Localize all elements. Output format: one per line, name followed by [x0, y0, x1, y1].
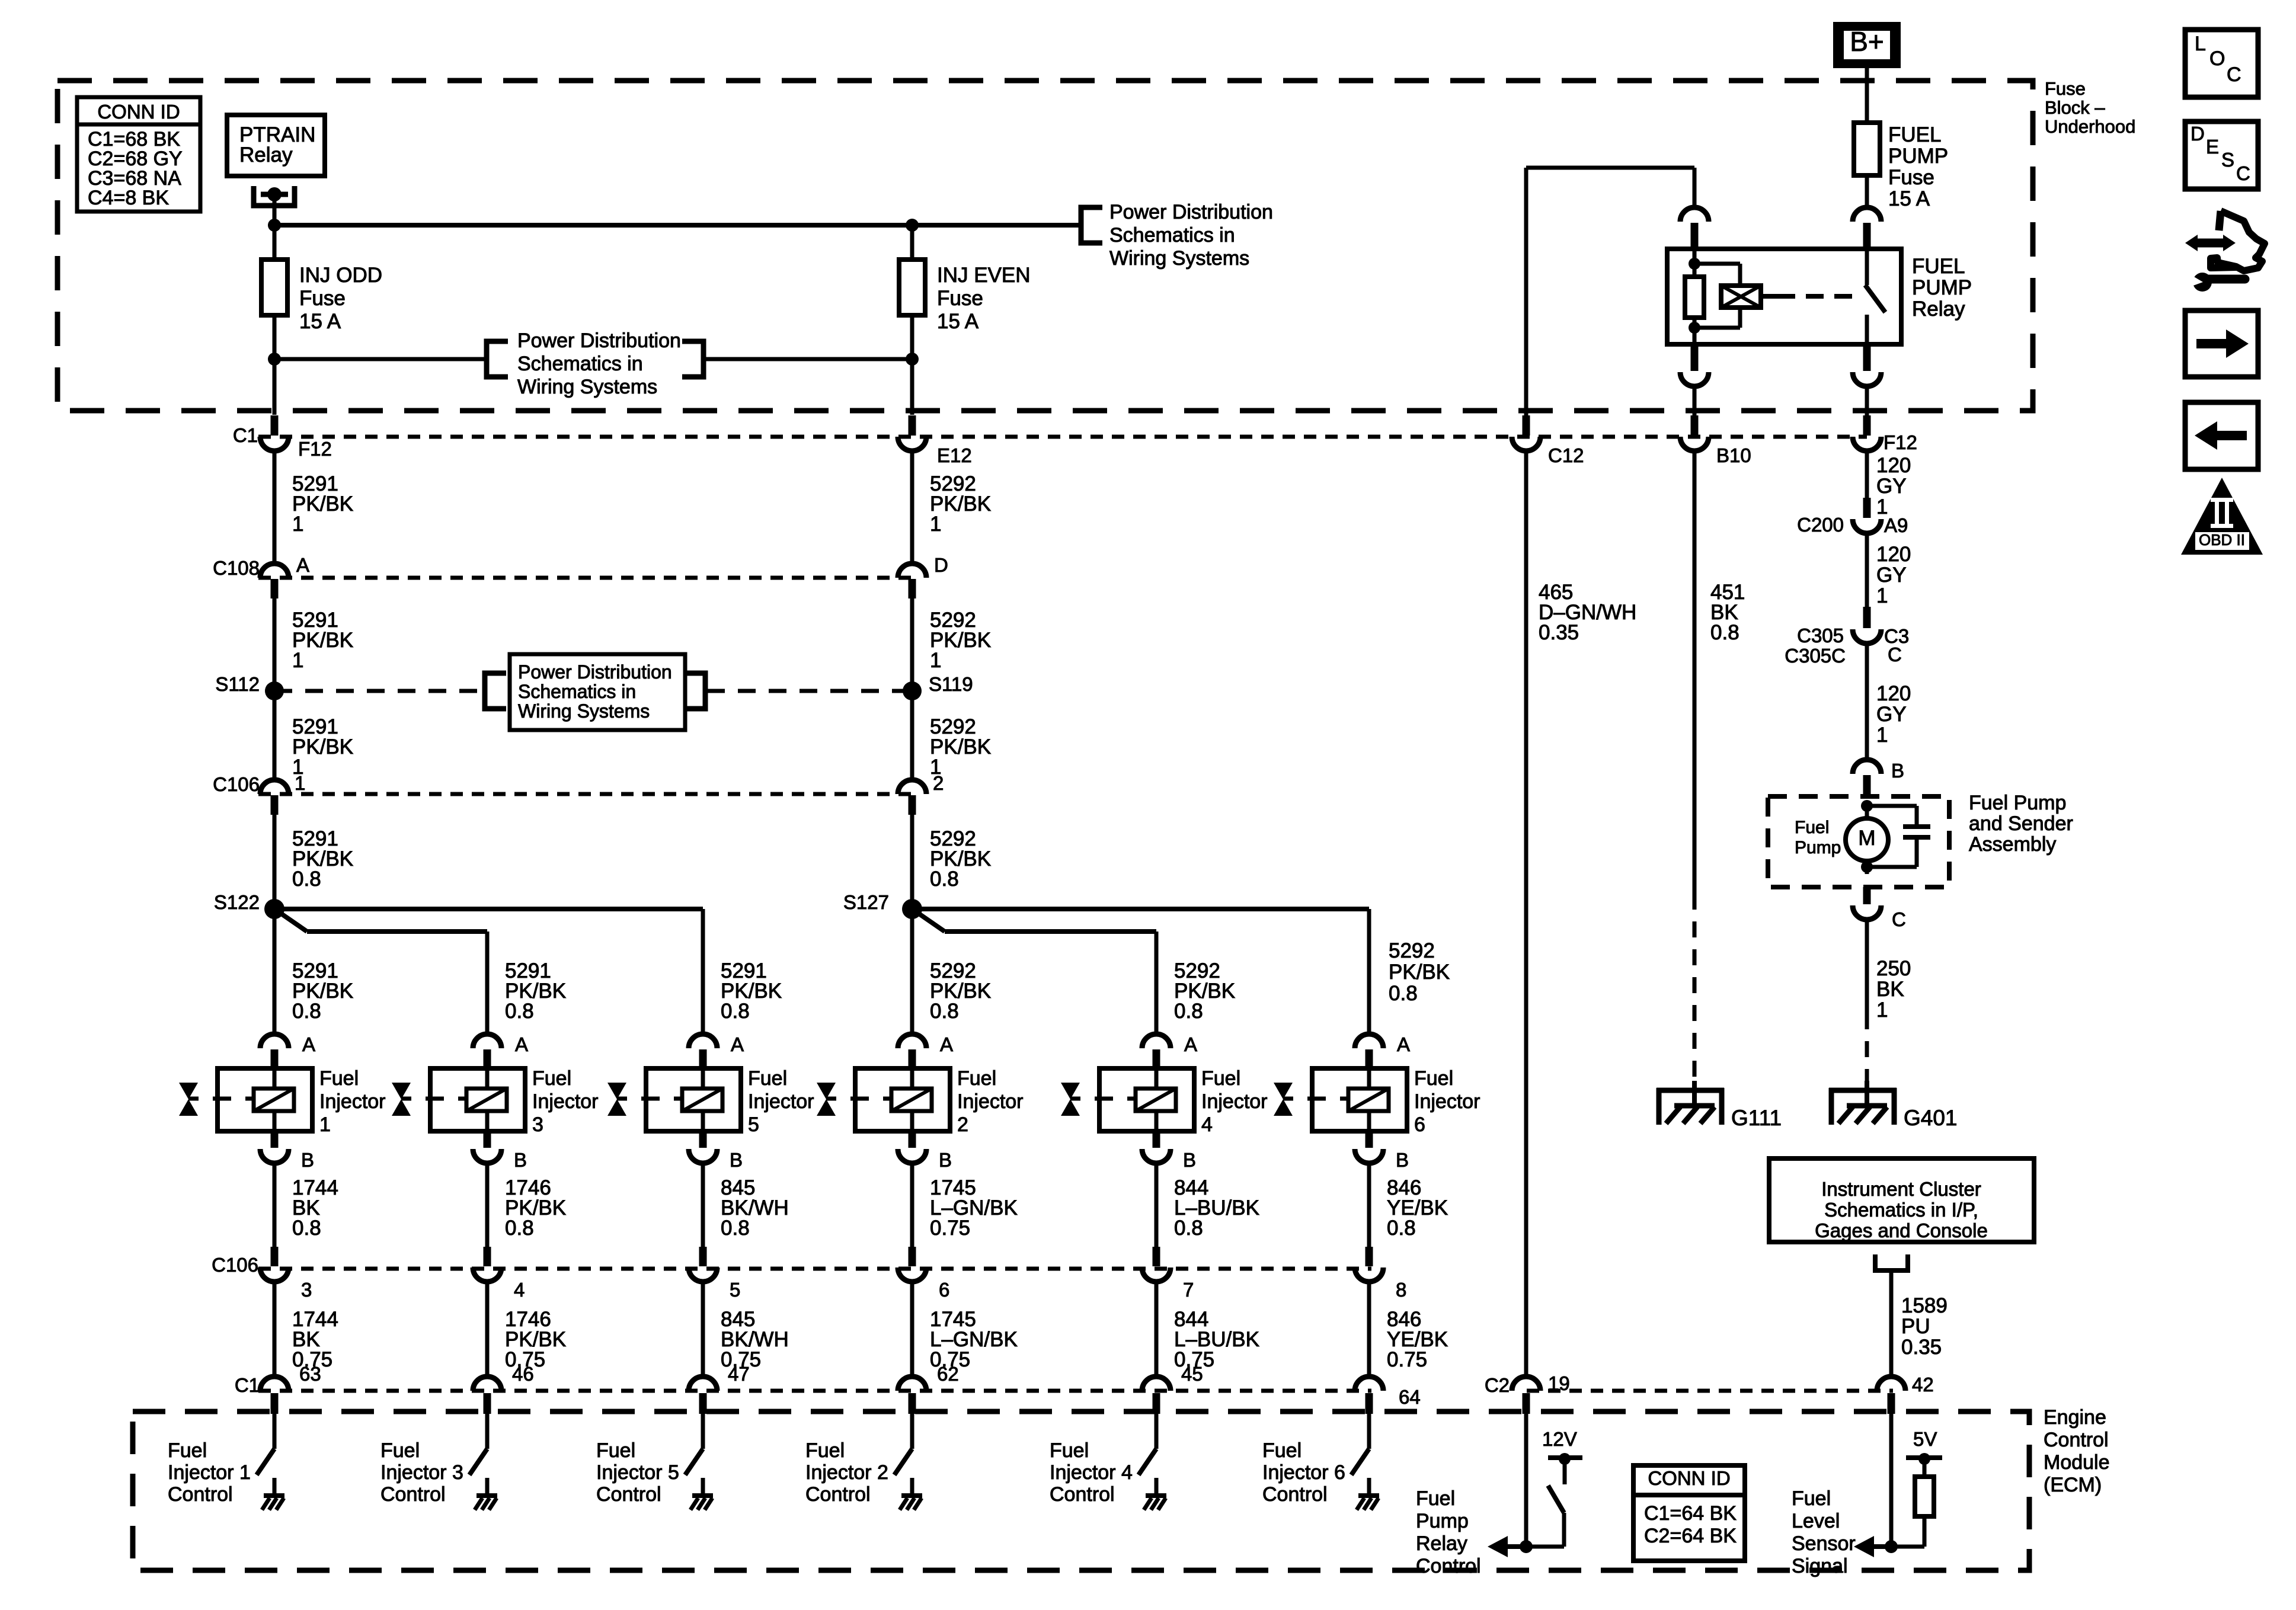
- svg-text:Fuse: Fuse: [937, 287, 983, 310]
- CONN ID table (fuse block): [77, 97, 200, 212]
- svg-text:3: 3: [301, 1279, 312, 1301]
- svg-text:63: 63: [299, 1363, 321, 1385]
- ground ECM injector 5: [692, 1493, 713, 1498]
- relay switch pin connector: [1853, 207, 1881, 222]
- svg-text:FUEL: FUEL: [1912, 255, 1965, 278]
- wire S122 to injector3 column: [274, 909, 307, 932]
- connector pump pin B: [1853, 760, 1881, 774]
- node junction PTRAIN feed: [268, 219, 281, 232]
- connector C305: [1863, 607, 1871, 628]
- fuel pump capacitor: [1867, 804, 1917, 808]
- svg-text:Fuel: Fuel: [1050, 1439, 1089, 1462]
- svg-text:C: C: [2227, 63, 2241, 86]
- svg-text:Injector 4: Injector 4: [1050, 1461, 1133, 1484]
- svg-text:A: A: [731, 1033, 744, 1055]
- splice S119: [903, 681, 922, 700]
- connector C200: [1863, 498, 1871, 518]
- svg-text:D: D: [2191, 123, 2205, 145]
- svg-text:0.8: 0.8: [505, 1000, 534, 1023]
- ECM dashed box: [133, 1411, 2029, 1570]
- icon LOC: [2185, 30, 2258, 97]
- svg-text:Module: Module: [2044, 1451, 2110, 1474]
- connector row C108: [258, 576, 913, 580]
- fuel injector 6 body: [1312, 1068, 1407, 1131]
- svg-text:Underhood: Underhood: [2045, 116, 2135, 137]
- svg-text:0.8: 0.8: [292, 868, 321, 891]
- svg-text:C1=64 BK: C1=64 BK: [1644, 1502, 1737, 1525]
- wire F12 down to C200: [1865, 451, 1869, 498]
- svg-text:0.35: 0.35: [1901, 1336, 1942, 1359]
- svg-text:Injector: Injector: [748, 1090, 814, 1113]
- svg-text:S119: S119: [929, 673, 973, 695]
- arrow fuel pump relay control: [1506, 1544, 1526, 1549]
- wire B+ down: [1865, 68, 1869, 124]
- wire C106 to S122: [273, 815, 277, 909]
- fuel injector 4 pin A connector: [1142, 1034, 1171, 1048]
- fuel injector 3 pin B connector: [484, 1131, 491, 1148]
- wire injector 3 B to C106: [485, 1163, 490, 1247]
- svg-text:Injector: Injector: [319, 1090, 386, 1113]
- PTRAIN Relay box: [227, 115, 325, 176]
- svg-text:3: 3: [532, 1113, 543, 1136]
- fuel injector 3 body: [430, 1068, 525, 1131]
- svg-text:E12: E12: [937, 444, 972, 466]
- relay control dashed link: [1761, 294, 1777, 299]
- wire B10 dashed to ground: [1693, 894, 1697, 1088]
- svg-text:Relay: Relay: [1416, 1532, 1467, 1555]
- icon diagnostic wrench: [2211, 211, 2265, 271]
- svg-text:Control: Control: [1050, 1483, 1115, 1506]
- fuel injector 3 pin A connector: [473, 1034, 501, 1048]
- svg-text:0.8: 0.8: [1174, 1217, 1203, 1240]
- ECM 5V pull-up: [1906, 1455, 1942, 1460]
- svg-text:120: 120: [1876, 454, 1911, 477]
- svg-text:C: C: [1892, 908, 1906, 930]
- wire pump to ground solid: [1865, 920, 1869, 1013]
- splice S112: [265, 681, 284, 700]
- ECM fuel level sensor input: [1889, 1414, 1894, 1547]
- svg-text:B: B: [730, 1149, 743, 1171]
- fuel injector 1 body: [218, 1068, 312, 1131]
- svg-text:PUMP: PUMP: [1912, 276, 1972, 299]
- svg-text:Relay: Relay: [1912, 297, 1965, 321]
- fuse INJ EVEN: [910, 225, 914, 260]
- svg-text:4: 4: [1201, 1113, 1213, 1136]
- svg-text:Injector: Injector: [1201, 1090, 1268, 1113]
- ground ECM injector 4: [1146, 1493, 1166, 1498]
- svg-text:Level: Level: [1792, 1510, 1840, 1532]
- fuel injector 2 body: [855, 1068, 950, 1131]
- svg-text:Schematics in: Schematics in: [518, 681, 636, 702]
- svg-text:Injector 2: Injector 2: [805, 1461, 888, 1484]
- svg-text:0.35: 0.35: [1539, 621, 1579, 644]
- fuse FUEL PUMP: [1854, 123, 1880, 175]
- svg-text:S: S: [2221, 149, 2234, 171]
- svg-text:A: A: [940, 1033, 953, 1055]
- svg-text:7: 7: [1183, 1279, 1194, 1301]
- svg-text:6: 6: [1414, 1113, 1425, 1136]
- ECM driver switch injector 5: [701, 1414, 705, 1449]
- svg-text:0.8: 0.8: [1387, 1217, 1416, 1240]
- relay switch blade: [1865, 249, 1869, 285]
- dashed link S112 to box: [274, 689, 483, 693]
- svg-text:B+: B+: [1850, 26, 1884, 57]
- svg-text:G401: G401: [1904, 1106, 1958, 1130]
- svg-text:INJ EVEN: INJ EVEN: [937, 264, 1031, 287]
- svg-text:B: B: [939, 1149, 952, 1171]
- svg-text:B: B: [1183, 1149, 1196, 1171]
- svg-text:A: A: [302, 1033, 315, 1055]
- svg-text:Fuel: Fuel: [319, 1067, 359, 1090]
- svg-text:2: 2: [957, 1113, 968, 1136]
- svg-text:GY: GY: [1876, 564, 1907, 587]
- svg-text:Control: Control: [1262, 1483, 1328, 1506]
- icon forward arrow: [2185, 311, 2258, 377]
- svg-text:5292: 5292: [1389, 939, 1435, 962]
- svg-text:Wiring Systems: Wiring Systems: [517, 376, 657, 398]
- bracket power distribution mid-left: [487, 341, 508, 377]
- fuel injector 6 pin A connector: [1355, 1034, 1383, 1048]
- fuse INJ ODD: [273, 225, 277, 261]
- svg-text:G111: G111: [1731, 1106, 1782, 1130]
- ECM driver switch injector 4: [1155, 1414, 1159, 1449]
- wire C200 to C305: [1865, 532, 1869, 607]
- svg-text:F12: F12: [1884, 431, 1917, 453]
- svg-text:C305: C305: [1797, 625, 1844, 646]
- svg-text:1: 1: [1876, 998, 1888, 1022]
- ECM driver switch injector 6: [1367, 1414, 1371, 1449]
- wire relay to fuse block edge: [1693, 386, 1697, 417]
- svg-text:L: L: [2195, 33, 2206, 55]
- svg-text:C1: C1: [233, 424, 258, 446]
- svg-text:Signal: Signal: [1792, 1555, 1848, 1577]
- ECM driver switch injector 1: [273, 1414, 277, 1449]
- wire S122 down injector1: [273, 909, 277, 1034]
- svg-text:Fuse: Fuse: [299, 287, 346, 310]
- svg-text:Fuel: Fuel: [168, 1439, 207, 1462]
- splice S127: [902, 899, 922, 919]
- ground G401: [1865, 1081, 1869, 1106]
- svg-text:Fuel: Fuel: [1795, 818, 1829, 837]
- svg-text:Injector 3: Injector 3: [380, 1461, 463, 1484]
- svg-text:1: 1: [292, 513, 303, 536]
- fuel injector 5 pin B connector: [699, 1131, 707, 1148]
- wire injector 2 B to C106: [910, 1163, 914, 1247]
- CONN ID table (ECM): [1633, 1465, 1745, 1561]
- svg-text:Power Distribution: Power Distribution: [518, 661, 672, 683]
- svg-text:0.75: 0.75: [930, 1217, 970, 1240]
- svg-text:GY: GY: [1876, 475, 1907, 498]
- wire E12 to D: [910, 451, 914, 564]
- svg-text:1: 1: [292, 649, 303, 672]
- svg-text:0.8: 0.8: [1710, 621, 1739, 644]
- node junction INJ ODD tap: [268, 353, 281, 366]
- wire to ECM pin 46: [485, 1282, 490, 1377]
- wire to ECM pin 47: [701, 1282, 705, 1377]
- wire injector 5 B to C106: [701, 1163, 705, 1247]
- svg-text:INJ ODD: INJ ODD: [299, 264, 382, 287]
- svg-text:Fuel: Fuel: [1792, 1487, 1831, 1510]
- svg-text:Injector: Injector: [1414, 1090, 1480, 1113]
- svg-text:Injector 6: Injector 6: [1262, 1461, 1345, 1484]
- svg-text:C: C: [1888, 644, 1902, 665]
- svg-text:64: 64: [1399, 1386, 1421, 1408]
- svg-text:120: 120: [1876, 682, 1911, 705]
- svg-text:F12: F12: [298, 438, 332, 460]
- svg-text:C2=64 BK: C2=64 BK: [1644, 1525, 1737, 1547]
- wire to ECM pin 45: [1155, 1282, 1159, 1377]
- svg-text:Fuel: Fuel: [748, 1067, 787, 1090]
- svg-text:Control: Control: [1416, 1555, 1481, 1577]
- wire S119 to pin2: [910, 691, 914, 781]
- ECM fuel pump relay control driver: [1524, 1414, 1528, 1547]
- svg-text:A9: A9: [1884, 514, 1908, 536]
- relay coil circuit: [1693, 249, 1697, 277]
- instrument cluster reference box: [1769, 1158, 2034, 1242]
- svg-text:Engine: Engine: [2044, 1406, 2106, 1429]
- wire C12 riser to relay coil: [1524, 168, 1528, 417]
- svg-text:C12: C12: [1548, 444, 1584, 466]
- bracket to power distribution (top): [1081, 207, 1102, 243]
- svg-text:0.8: 0.8: [930, 868, 959, 891]
- svg-text:0.8: 0.8: [505, 1217, 534, 1240]
- svg-text:2: 2: [933, 772, 944, 794]
- wire injector 4 B to C106: [1155, 1163, 1159, 1247]
- splice S122: [264, 899, 284, 919]
- fuel injector 3 valve symbol: [392, 1083, 411, 1116]
- svg-text:0.8: 0.8: [292, 1000, 321, 1023]
- wire S127 to injector6 column: [912, 907, 1369, 911]
- svg-text:B: B: [301, 1149, 314, 1171]
- svg-text:FUEL: FUEL: [1888, 123, 1941, 146]
- svg-text:Control: Control: [805, 1483, 871, 1506]
- svg-text:1: 1: [930, 649, 941, 672]
- svg-text:B: B: [1891, 760, 1904, 782]
- svg-text:15 A: 15 A: [937, 310, 979, 333]
- wire bracket to INJ EVEN: [703, 357, 912, 361]
- svg-text:OBD II: OBD II: [2199, 531, 2245, 549]
- wire S127 down injector2: [910, 909, 914, 1034]
- svg-text:A: A: [1184, 1033, 1197, 1055]
- fuel injector 4 pin B connector: [1153, 1131, 1160, 1148]
- relay coil resistor: [1685, 277, 1704, 318]
- svg-text:E: E: [2206, 136, 2219, 158]
- wire C305 to pump B: [1865, 644, 1869, 760]
- svg-text:C108: C108: [213, 557, 260, 579]
- fuel injector 6 pin B connector: [1366, 1131, 1373, 1148]
- svg-text:Gages and Console: Gages and Console: [1815, 1219, 1988, 1241]
- svg-text:CONN ID: CONN ID: [1648, 1467, 1730, 1489]
- svg-text:Assembly: Assembly: [1969, 833, 2056, 856]
- relay coil symbol: [1721, 286, 1761, 308]
- svg-text:PK/BK: PK/BK: [1389, 961, 1450, 984]
- icon DESC: [2185, 121, 2258, 189]
- B+ battery feed box: [1833, 22, 1901, 68]
- wire S122 to injector5 column: [274, 907, 703, 911]
- svg-text:Fuse: Fuse: [2045, 78, 2086, 99]
- svg-text:Fuel: Fuel: [1262, 1439, 1302, 1462]
- svg-text:C4=8 BK: C4=8 BK: [88, 187, 169, 209]
- fuel injector 5 body: [646, 1068, 741, 1131]
- svg-text:47: 47: [728, 1363, 750, 1385]
- wire fuse to relay: [1865, 175, 1869, 207]
- svg-text:A: A: [296, 554, 309, 576]
- svg-text:5: 5: [748, 1113, 759, 1136]
- wire PTRAIN to junction: [273, 194, 277, 225]
- svg-text:C2: C2: [1485, 1374, 1510, 1396]
- relay bottom connectors: [1691, 344, 1699, 371]
- wire C1 to C108: [273, 451, 277, 564]
- svg-text:B10: B10: [1716, 444, 1751, 466]
- svg-text:O: O: [2209, 47, 2225, 70]
- svg-text:C106: C106: [212, 1254, 258, 1276]
- svg-text:0.8: 0.8: [292, 1217, 321, 1240]
- wire cluster to pin 42: [1889, 1273, 1894, 1378]
- svg-text:Control: Control: [2044, 1429, 2109, 1451]
- wire D to S119: [910, 598, 914, 691]
- svg-text:Injector: Injector: [532, 1090, 599, 1113]
- ground G111: [1692, 1081, 1697, 1106]
- svg-text:Fuel: Fuel: [596, 1439, 635, 1462]
- fuel pump and sender dashed box: [1768, 796, 1949, 887]
- svg-text:Pump: Pump: [1795, 838, 1841, 857]
- svg-text:5: 5: [730, 1279, 740, 1301]
- svg-text:8: 8: [1396, 1279, 1406, 1301]
- wire S127 to injector4 column: [912, 909, 945, 932]
- svg-text:Fuel: Fuel: [805, 1439, 845, 1462]
- svg-text:120: 120: [1876, 543, 1911, 566]
- connector row C2 (ECM right): [1527, 1389, 1893, 1393]
- svg-text:12V: 12V: [1542, 1428, 1577, 1450]
- fuel injector 2 pin A connector: [898, 1034, 926, 1048]
- node junction INJ EVEN tap: [906, 353, 919, 366]
- icon OBD II: [2181, 478, 2263, 555]
- svg-text:19: 19: [1548, 1372, 1570, 1394]
- svg-text:A: A: [515, 1033, 528, 1055]
- svg-text:S127: S127: [843, 891, 889, 913]
- svg-text:D: D: [934, 554, 948, 576]
- svg-text:0.8: 0.8: [721, 1000, 750, 1023]
- svg-text:Wiring Systems: Wiring Systems: [518, 700, 650, 722]
- svg-text:PUMP: PUMP: [1888, 145, 1948, 168]
- ECM driver switch injector 3: [485, 1414, 490, 1449]
- PTRAIN relay connector: [254, 186, 295, 206]
- wire to ECM pin 62: [910, 1282, 914, 1377]
- fuel injector 5 pin A connector: [689, 1034, 717, 1048]
- svg-text:Pump: Pump: [1416, 1510, 1469, 1532]
- svg-text:Fuel: Fuel: [1414, 1067, 1453, 1090]
- connector row C1 (fuse block): [258, 435, 1867, 439]
- svg-text:1: 1: [1876, 584, 1888, 607]
- wire to ECM pin 64: [1367, 1282, 1371, 1377]
- wire to ECM pin 63: [273, 1282, 277, 1377]
- wire pump dashed to ground: [1865, 1013, 1869, 1088]
- fuel injector 2 pin B connector: [909, 1131, 916, 1148]
- wire injector 1 B to C106: [273, 1163, 277, 1247]
- fuel injector 5 valve symbol: [607, 1083, 626, 1116]
- svg-text:and Sender: and Sender: [1969, 812, 2073, 835]
- wire C12 down to ECM: [1524, 451, 1528, 1377]
- wire B10 down: [1693, 451, 1697, 894]
- svg-text:1: 1: [295, 772, 305, 794]
- svg-text:1: 1: [930, 513, 941, 536]
- fuel injector 1 valve symbol: [179, 1083, 198, 1116]
- instrument cluster continuation bracket: [1875, 1254, 1908, 1270]
- connector row C106: [258, 792, 913, 796]
- svg-text:0.75: 0.75: [1387, 1348, 1427, 1371]
- svg-text:B: B: [1396, 1149, 1409, 1171]
- svg-text:S122: S122: [214, 891, 260, 913]
- svg-text:6: 6: [939, 1279, 949, 1301]
- svg-text:62: 62: [937, 1363, 959, 1385]
- svg-text:1: 1: [319, 1113, 331, 1136]
- wire pin2 to S127: [910, 815, 914, 909]
- svg-text:M: M: [1858, 827, 1875, 850]
- dashed link box to S119: [707, 689, 912, 693]
- svg-text:0.8: 0.8: [1174, 1000, 1203, 1023]
- svg-text:Fuel: Fuel: [380, 1439, 420, 1462]
- svg-text:Block –: Block –: [2045, 97, 2105, 118]
- fuel injector 1 pin B connector: [271, 1131, 279, 1148]
- svg-text:BK: BK: [1876, 978, 1904, 1001]
- wire C108 to S112: [273, 598, 277, 691]
- FUEL PUMP relay box: [1667, 249, 1901, 344]
- wire horizontal feed to INJ EVEN: [274, 223, 1081, 228]
- ECM 12V switch: [1548, 1455, 1582, 1460]
- svg-text:Power Distribution: Power Distribution: [1109, 201, 1273, 223]
- svg-text:Fuel: Fuel: [532, 1067, 571, 1090]
- connector row C1 (ECM): [258, 1389, 1371, 1393]
- svg-text:GY: GY: [1876, 703, 1907, 726]
- fuel pump motor: [1861, 800, 1873, 812]
- wire INJ ODD fuse down: [273, 315, 277, 415]
- svg-text:0.8: 0.8: [930, 1000, 959, 1023]
- svg-text:Schematics in: Schematics in: [1109, 224, 1235, 247]
- bracket S119 side: [684, 673, 705, 709]
- bracket S112 side: [485, 673, 506, 709]
- bracket power distribution mid-right: [682, 341, 703, 377]
- svg-text:PU: PU: [1901, 1315, 1930, 1338]
- svg-text:B: B: [514, 1149, 527, 1171]
- svg-text:Instrument Cluster: Instrument Cluster: [1821, 1178, 1981, 1200]
- ECM driver switch injector 2: [910, 1414, 914, 1449]
- connector pump pin C: [1863, 887, 1871, 904]
- node junction INJ EVEN feed: [906, 219, 919, 232]
- svg-text:1: 1: [1876, 724, 1888, 747]
- svg-text:Injector 5: Injector 5: [596, 1461, 679, 1484]
- svg-text:Fuel: Fuel: [1201, 1067, 1240, 1090]
- svg-text:250: 250: [1876, 957, 1911, 980]
- svg-text:5V: 5V: [1913, 1428, 1937, 1450]
- wire to power distribution bracket (left): [274, 357, 487, 361]
- power distribution box (mid): [510, 654, 685, 730]
- svg-text:Injector 1: Injector 1: [168, 1461, 251, 1484]
- svg-text:C106: C106: [213, 773, 260, 795]
- fuse block underhood dashed box: [57, 81, 2033, 411]
- svg-text:Sensor: Sensor: [1792, 1532, 1856, 1555]
- svg-text:46: 46: [512, 1363, 534, 1385]
- svg-text:Control: Control: [596, 1483, 661, 1506]
- svg-text:C: C: [2236, 162, 2250, 184]
- svg-text:C200: C200: [1797, 514, 1844, 536]
- svg-text:0.8: 0.8: [721, 1217, 750, 1240]
- fuel injector 4 body: [1099, 1068, 1194, 1131]
- svg-text:15 A: 15 A: [1888, 187, 1930, 210]
- svg-text:Control: Control: [168, 1483, 233, 1506]
- svg-text:C305C: C305C: [1785, 645, 1846, 667]
- svg-text:Injector: Injector: [957, 1090, 1024, 1113]
- svg-text:Fuel: Fuel: [957, 1067, 996, 1090]
